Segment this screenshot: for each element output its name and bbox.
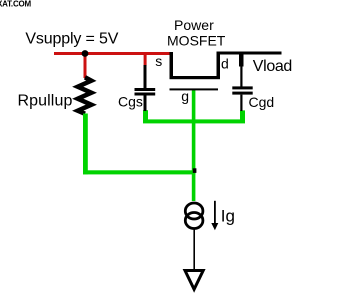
node junction dot on Vsupply rail (82, 50, 89, 57)
transistor gate plate (170, 88, 219, 90)
wire red stub to Cgs (144, 54, 147, 66)
svg-text:g: g (181, 88, 189, 104)
wire green horizontal lower bar (83, 170, 195, 174)
transistor drain lead (217, 52, 221, 79)
current source Ig circle bottom (185, 213, 203, 229)
capacitor Cgd top plate (232, 86, 252, 89)
capacitor Cgd bottom plate (232, 92, 252, 95)
wire black below current source (193, 230, 195, 270)
wire red vertical to Rpullup (84, 54, 87, 79)
wire green vertical gate net (192, 89, 196, 201)
capacitor Cgs bottom plate (135, 93, 156, 96)
wire red horizontal Vsupply rail (54, 52, 170, 55)
svg-text:Vload: Vload (253, 58, 292, 75)
node black mark at green junction (193, 168, 197, 173)
svg-text:Cgs: Cgs (118, 94, 143, 110)
wire green stub to Cgd (240, 110, 245, 121)
wire green vertical below Rpullup (83, 114, 88, 175)
capacitor Cgd lead bottom (240, 95, 242, 111)
transistor Power MOSFET source lead (170, 52, 174, 79)
svg-text:Vsupply = 5V: Vsupply = 5V (25, 31, 118, 48)
svg-text:s: s (155, 53, 162, 69)
capacitor Cgs top plate (135, 88, 156, 91)
capacitor Cgs lead bottom (144, 96, 147, 112)
svg-text:XAT.COM: XAT.COM (0, 0, 32, 8)
capacitor Cgs lead top (144, 65, 147, 88)
svg-text:MOSFET: MOSFET (167, 33, 226, 49)
wire black top right to Vload (217, 52, 282, 55)
capacitor Cgd lead top (240, 66, 242, 87)
wire green upper bar between capacitors (143, 119, 245, 123)
svg-text:Power: Power (174, 17, 214, 33)
svg-text:Rpullup: Rpullup (18, 93, 73, 110)
wire green stub to Cgs (143, 110, 148, 121)
capacitor Cgd stub thick (239, 54, 244, 67)
arrow Ig direction (214, 201, 216, 223)
resistor Rpullup (78, 77, 92, 114)
transistor channel bottom (170, 76, 221, 79)
ground symbol (185, 271, 203, 290)
svg-text:Ig: Ig (221, 206, 235, 225)
svg-text:Cgd: Cgd (249, 94, 275, 110)
current source Ig circle top (185, 203, 203, 219)
svg-text:d: d (221, 56, 229, 72)
